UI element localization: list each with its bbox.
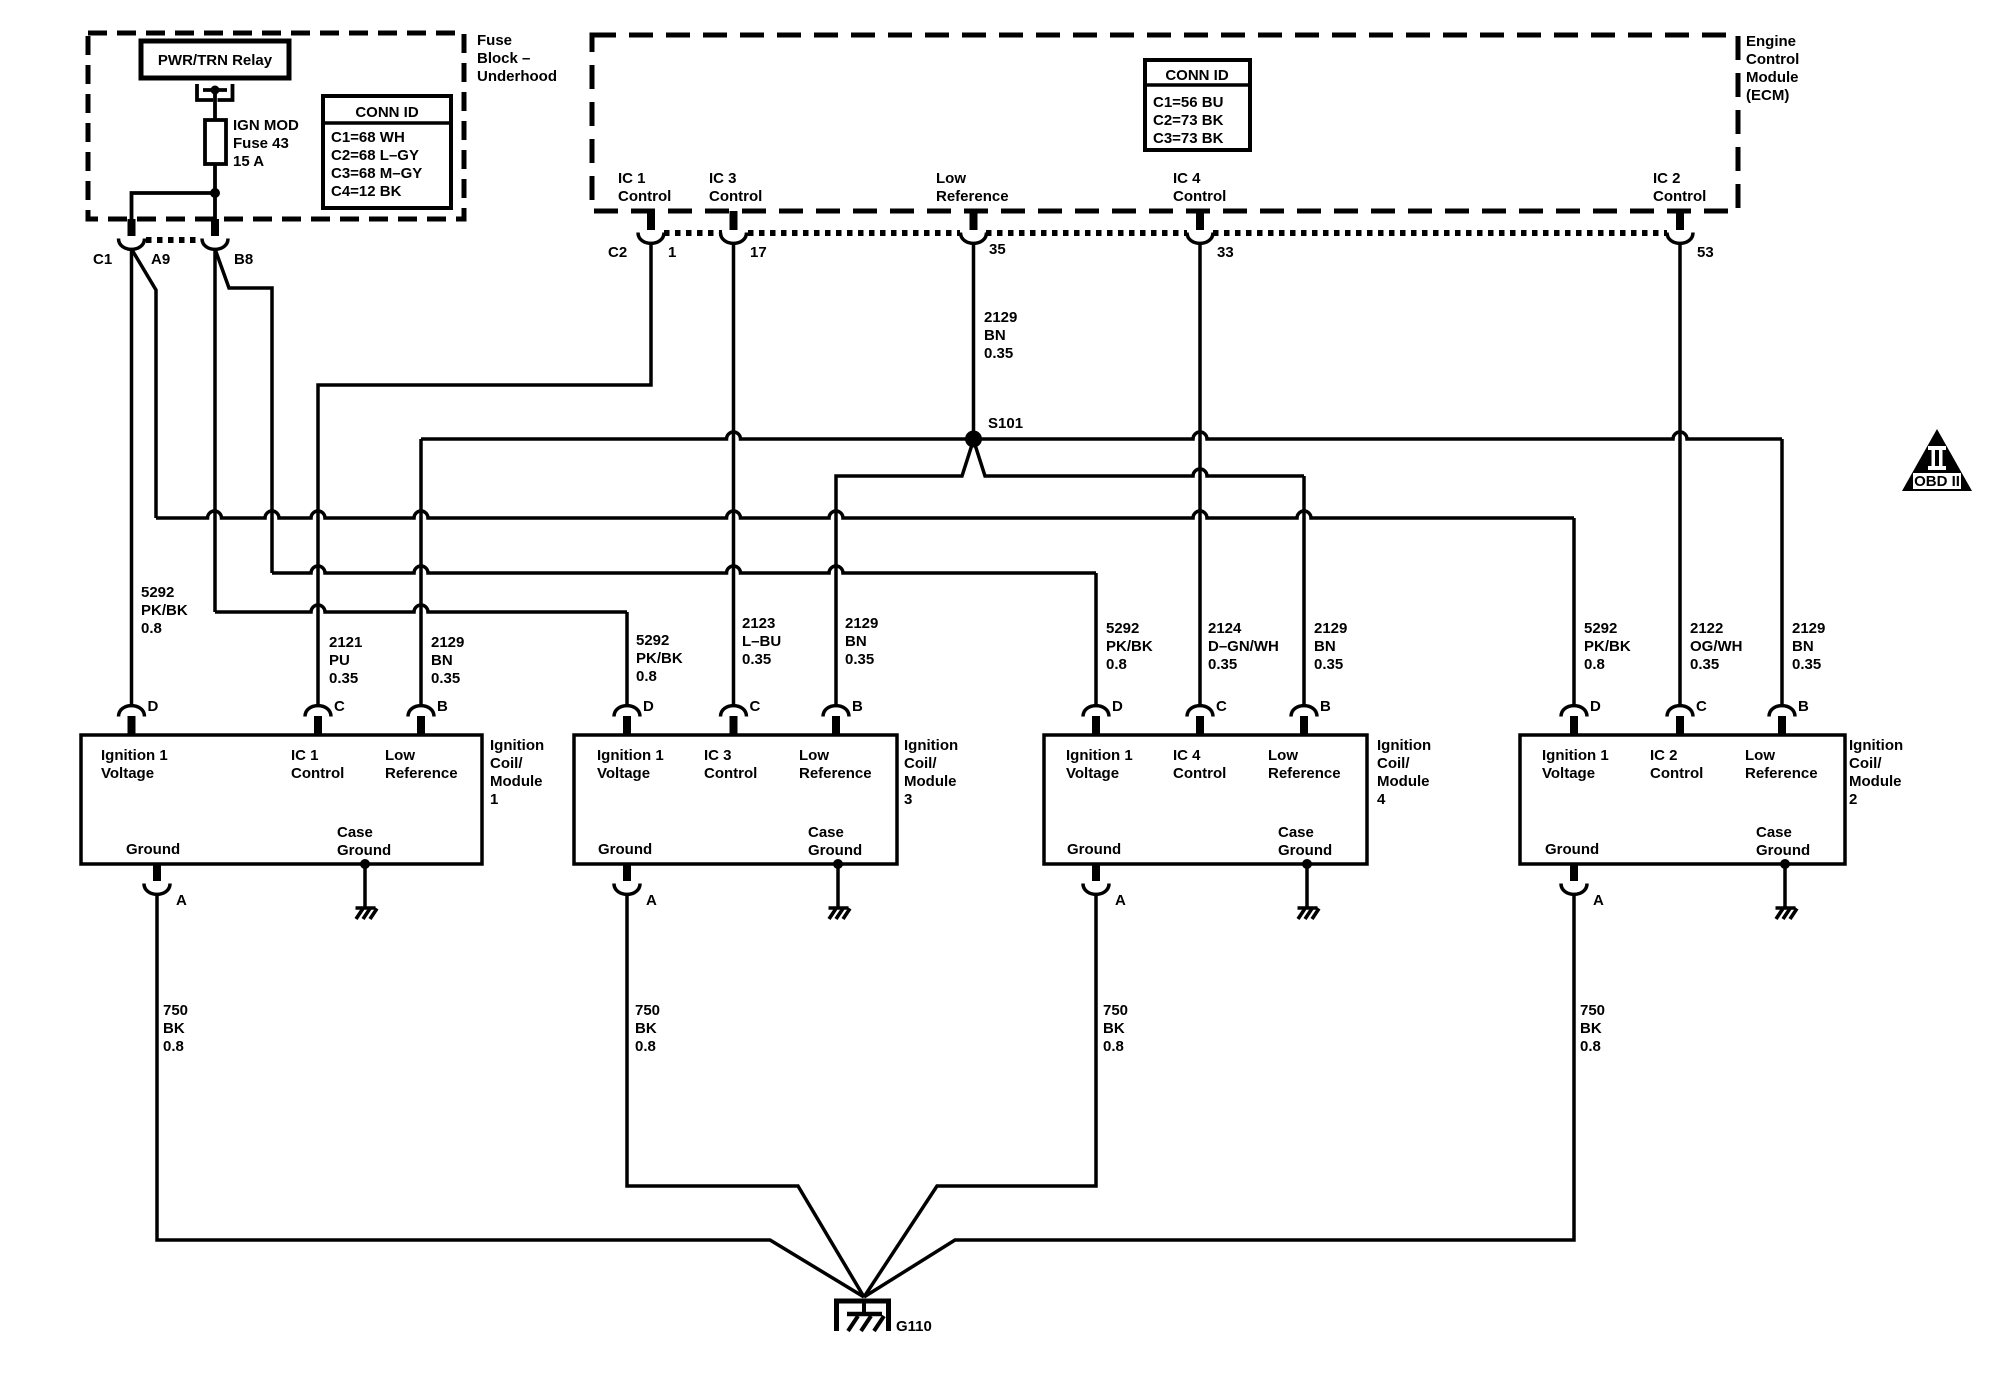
svg-text:D: D [148, 698, 159, 715]
label: Engine Control Module (ECM) [1746, 33, 1799, 104]
label 2129 BN 0.35 module4 B [1314, 620, 1347, 673]
svg-text:C2=73 BK: C2=73 BK [1153, 112, 1224, 129]
ignition coil/module 3 [574, 735, 897, 864]
wire 2129 down to module4 pin B [1302, 476, 1306, 706]
module 3 side label [904, 737, 958, 808]
svg-text:Reference: Reference [385, 765, 458, 782]
wire 5292 branch from B8 [215, 249, 272, 573]
svg-text:Fuse 43: Fuse 43 [233, 135, 289, 152]
svg-text:C: C [334, 698, 345, 715]
wire 2129 S101 V-branch left to module3 pin B [836, 440, 974, 706]
ECM pin 35 [961, 211, 987, 243]
svg-text:4: 4 [1377, 791, 1386, 808]
svg-text:A: A [1115, 892, 1126, 909]
svg-text:2124: 2124 [1208, 620, 1242, 637]
splice S101 [965, 431, 982, 448]
svg-text:2129: 2129 [984, 309, 1017, 326]
wire 5292 A9 to module1 pin D [130, 249, 134, 706]
label 2121 PU 0.35 module1 C [329, 634, 362, 687]
svg-text:A: A [176, 892, 187, 909]
svg-text:5292: 5292 [141, 584, 174, 601]
svg-text:Voltage: Voltage [101, 765, 154, 782]
wire 750 BK module1 A to G110 [157, 894, 864, 1297]
svg-text:0.35: 0.35 [984, 345, 1013, 362]
label 750 BK 0.8 (module3) [635, 1002, 660, 1055]
svg-text:0.35: 0.35 [431, 670, 460, 687]
module 3 case ground wire [836, 864, 840, 908]
svg-text:B: B [1320, 698, 1331, 715]
module 3 labels [597, 747, 872, 859]
svg-text:5292: 5292 [1106, 620, 1139, 637]
module 4 case ground wire [1305, 864, 1309, 908]
module 1 chassis ground symbol [356, 908, 378, 919]
module 3 pin C [721, 706, 747, 735]
module 4 pin B [1291, 706, 1317, 735]
svg-text:2129: 2129 [845, 615, 878, 632]
wire fuse to junction [213, 164, 217, 219]
svg-text:Case: Case [337, 824, 373, 841]
svg-text:0.35: 0.35 [742, 651, 771, 668]
svg-text:Control: Control [1173, 188, 1226, 205]
svg-text:Reference: Reference [1268, 765, 1341, 782]
connector table CONN ID (fuse block) [323, 96, 451, 208]
svg-text:2123: 2123 [742, 615, 775, 632]
svg-text:A9: A9 [151, 251, 170, 268]
svg-text:G110: G110 [896, 1318, 932, 1335]
svg-text:Reference: Reference [799, 765, 872, 782]
wire 2122 ECM pin53 to module2 pin C [1678, 243, 1682, 706]
wire 2129 down to module2 pin B [1780, 439, 1784, 706]
svg-text:0.8: 0.8 [1584, 656, 1605, 673]
svg-text:IC 1: IC 1 [291, 747, 319, 764]
svg-text:Module: Module [490, 773, 543, 790]
svg-text:Reference: Reference [936, 188, 1009, 205]
OBD II marker [1902, 429, 1972, 491]
label: Fuse Block - Underhood [477, 32, 557, 85]
svg-text:Ignition 1: Ignition 1 [597, 747, 664, 764]
wire rail B8 to module3 D [215, 605, 627, 612]
module 2 pin C [1667, 706, 1693, 735]
svg-text:D: D [1590, 698, 1601, 715]
svg-text:Ground: Ground [337, 842, 391, 859]
pin A9 of connector C1 [119, 219, 145, 249]
svg-text:Module: Module [1849, 773, 1902, 790]
wire 2129 down to module1 pin B [419, 439, 423, 706]
svg-text:Ignition: Ignition [904, 737, 958, 754]
svg-text:IC 4: IC 4 [1173, 747, 1201, 764]
pin B8 of connector C1 [202, 219, 228, 249]
module 1 pin D [119, 706, 145, 735]
module 4 labels [1066, 747, 1341, 859]
svg-text:C4=12 BK: C4=12 BK [331, 183, 402, 200]
fuse F43: IGN MOD Fuse 43 15A [205, 120, 226, 164]
svg-text:C3=73 BK: C3=73 BK [1153, 130, 1224, 147]
module 3 pin A [614, 864, 640, 894]
svg-text:Ground: Ground [1278, 842, 1332, 859]
label 2129 BN 0.35 module1 B [431, 634, 464, 687]
svg-text:C: C [750, 698, 761, 715]
connector table CONN ID (ECM) [1145, 60, 1250, 150]
svg-text:33: 33 [1217, 244, 1234, 261]
wire 5292 down to module3 pin D [625, 612, 629, 706]
module 1 pin A [144, 864, 170, 894]
module 1 labels [101, 747, 458, 859]
svg-text:IGN MOD: IGN MOD [233, 117, 299, 134]
module 4 case ground junction [1302, 859, 1312, 869]
svg-text:IC 3: IC 3 [709, 170, 737, 187]
svg-text:0.35: 0.35 [1792, 656, 1821, 673]
label 750 BK 0.8 (module4) [1103, 1002, 1128, 1055]
svg-text:Voltage: Voltage [1542, 765, 1595, 782]
svg-text:Coil/: Coil/ [1849, 755, 1882, 772]
wire 2129 ECM pin35 to splice S101 [972, 243, 976, 439]
svg-text:C2=68 L–GY: C2=68 L–GY [331, 147, 419, 164]
svg-text:2121: 2121 [329, 634, 362, 651]
svg-text:B: B [437, 698, 448, 715]
svg-text:Reference: Reference [1745, 765, 1818, 782]
connector C1 dotted in-line [146, 237, 201, 243]
fuse block - underhood (dashed enclosure) [88, 33, 464, 219]
svg-text:B8: B8 [234, 251, 253, 268]
svg-text:Voltage: Voltage [597, 765, 650, 782]
svg-text:Ground: Ground [808, 842, 862, 859]
svg-text:5292: 5292 [1584, 620, 1617, 637]
svg-text:BK: BK [163, 1020, 185, 1037]
svg-text:C3=68 M–GY: C3=68 M–GY [331, 165, 422, 182]
wire relay to fuse [213, 92, 217, 120]
svg-text:B: B [852, 698, 863, 715]
svg-text:C1=56 BU: C1=56 BU [1153, 94, 1223, 111]
label 750 BK 0.8 (module2) [1580, 1002, 1605, 1055]
wire 2123 ECM pin17 to module3 pin C [732, 243, 736, 706]
wire 5292 B8 to module3 pin D [213, 249, 217, 612]
module 2 pin A [1561, 864, 1587, 894]
svg-text:PU: PU [329, 652, 350, 669]
svg-text:Control: Control [1746, 51, 1799, 68]
svg-text:Module: Module [1377, 773, 1430, 790]
svg-text:35: 35 [989, 241, 1006, 258]
svg-text:2122: 2122 [1690, 620, 1723, 637]
svg-text:Control: Control [618, 188, 671, 205]
label 2124 D-GN/WH 0.35 module4 C [1208, 620, 1279, 673]
engine control module ECM (dashed enclosure) [592, 35, 1738, 211]
svg-text:PK/BK: PK/BK [141, 602, 188, 619]
svg-text:Low: Low [799, 747, 829, 764]
svg-text:B: B [1798, 698, 1809, 715]
junction in fuse block [210, 188, 220, 198]
svg-text:C: C [1696, 698, 1707, 715]
ECM pin 1 [638, 211, 664, 243]
label: IGN MOD Fuse 43 15 A [233, 117, 299, 170]
svg-text:Control: Control [1653, 188, 1706, 205]
module 1 case ground junction [360, 859, 370, 869]
label 750 BK 0.8 (module1) [163, 1002, 188, 1055]
wire 5292 down to module2 pin D [1572, 518, 1576, 706]
label 2129 BN 0.35 module2 B [1792, 620, 1825, 673]
svg-text:IC 3: IC 3 [704, 747, 732, 764]
svg-text:BN: BN [1314, 638, 1336, 655]
svg-text:Underhood: Underhood [477, 68, 557, 85]
svg-text:750: 750 [163, 1002, 188, 1019]
ground G110 [837, 1301, 889, 1331]
svg-text:Ignition 1: Ignition 1 [1542, 747, 1609, 764]
svg-text:Control: Control [1650, 765, 1703, 782]
wire 5292 branch from A9 [132, 249, 157, 518]
ignition coil/module 1 [81, 735, 482, 864]
svg-text:OBD II: OBD II [1914, 473, 1960, 490]
svg-text:Case: Case [808, 824, 844, 841]
svg-text:2: 2 [1849, 791, 1857, 808]
svg-text:Control: Control [291, 765, 344, 782]
svg-text:CONN ID: CONN ID [1165, 67, 1229, 84]
svg-text:Low: Low [385, 747, 415, 764]
svg-text:0.8: 0.8 [636, 668, 657, 685]
ECM pin 53 [1667, 211, 1693, 243]
module 2 side label [1849, 737, 1903, 808]
svg-text:PK/BK: PK/BK [636, 650, 683, 667]
svg-text:1: 1 [490, 791, 498, 808]
svg-text:750: 750 [1103, 1002, 1128, 1019]
svg-text:17: 17 [750, 244, 767, 261]
svg-text:C2: C2 [608, 244, 627, 261]
svg-text:Control: Control [709, 188, 762, 205]
wire rail 5292 to module4 pin D [272, 566, 1096, 573]
svg-text:0.35: 0.35 [1690, 656, 1719, 673]
wire 2124 ECM pin33 to module4 pin C [1198, 243, 1202, 706]
module 2 pin D [1561, 706, 1587, 735]
svg-text:BN: BN [845, 633, 867, 650]
svg-text:L–BU: L–BU [742, 633, 781, 650]
svg-text:Ignition 1: Ignition 1 [101, 747, 168, 764]
svg-text:750: 750 [635, 1002, 660, 1019]
svg-text:A: A [1593, 892, 1604, 909]
svg-text:0.8: 0.8 [1103, 1038, 1124, 1055]
label 5292 PK/BK 0.8 module3 D [636, 632, 683, 685]
relay contact symbol [197, 84, 233, 100]
module 4 pin C [1187, 706, 1213, 735]
svg-text:IC 2: IC 2 [1653, 170, 1681, 187]
svg-text:2129: 2129 [1314, 620, 1347, 637]
svg-text:PK/BK: PK/BK [1106, 638, 1153, 655]
svg-text:3: 3 [904, 791, 912, 808]
svg-text:CONN ID: CONN ID [355, 104, 419, 121]
svg-text:Ignition 1: Ignition 1 [1066, 747, 1133, 764]
svg-text:0.8: 0.8 [1580, 1038, 1601, 1055]
module 1 side label [490, 737, 544, 808]
module 1 pin B [408, 706, 434, 735]
svg-text:Low: Low [1268, 747, 1298, 764]
module 2 pin B [1769, 706, 1795, 735]
svg-text:2129: 2129 [431, 634, 464, 651]
ECM pin 17 [721, 211, 747, 243]
svg-text:Module: Module [904, 773, 957, 790]
svg-text:Block –: Block – [477, 50, 530, 67]
wire 2121 ECM pin1 to module1 pin C [318, 243, 651, 706]
svg-text:Case: Case [1756, 824, 1792, 841]
svg-text:D–GN/WH: D–GN/WH [1208, 638, 1279, 655]
svg-text:0.8: 0.8 [635, 1038, 656, 1055]
svg-text:2129: 2129 [1792, 620, 1825, 637]
svg-text:1: 1 [668, 244, 676, 261]
svg-text:PWR/TRN Relay: PWR/TRN Relay [158, 52, 273, 69]
module 1 case ground wire [363, 864, 367, 908]
ECM pin 33 [1187, 211, 1213, 243]
module 3 pin D [614, 706, 640, 735]
module 3 pin B [823, 706, 849, 735]
module 2 chassis ground symbol [1776, 908, 1798, 919]
svg-text:Ground: Ground [1545, 841, 1599, 858]
svg-text:BK: BK [1580, 1020, 1602, 1037]
svg-text:PK/BK: PK/BK [1584, 638, 1631, 655]
svg-text:Coil/: Coil/ [490, 755, 523, 772]
wire rail 5292 to module2 pin D [156, 511, 1574, 518]
svg-text:Ground: Ground [1067, 841, 1121, 858]
svg-text:5292: 5292 [636, 632, 669, 649]
svg-text:Coil/: Coil/ [1377, 755, 1410, 772]
svg-text:Control: Control [704, 765, 757, 782]
module 3 chassis ground symbol [829, 908, 851, 919]
svg-text:BN: BN [984, 327, 1006, 344]
module 2 case ground junction [1780, 859, 1790, 869]
svg-text:Ignition: Ignition [1377, 737, 1431, 754]
relay K: PWR/TRN Relay name box [141, 41, 289, 78]
label 2129 BN 0.35 module3 B [845, 615, 878, 668]
module 4 chassis ground symbol [1298, 908, 1320, 919]
svg-text:0.8: 0.8 [1106, 656, 1127, 673]
wire 5292 down to module4 pin D [1094, 573, 1098, 706]
wire 2129 rail through S101 [421, 432, 1782, 439]
svg-text:S101: S101 [988, 415, 1023, 432]
module 2 case ground wire [1783, 864, 1787, 908]
svg-text:Ground: Ground [1756, 842, 1810, 859]
wire 750 BK module3 A to G110 [627, 894, 864, 1297]
svg-text:C1=68 WH: C1=68 WH [331, 129, 405, 146]
svg-text:53: 53 [1697, 244, 1714, 261]
ignition coil/module 2 [1520, 735, 1845, 864]
svg-text:Voltage: Voltage [1066, 765, 1119, 782]
wire junction branch to A9 [132, 193, 216, 219]
svg-text:IC 1: IC 1 [618, 170, 646, 187]
label 5292 PK/BK 0.8 module1 D [141, 584, 188, 637]
svg-text:Engine: Engine [1746, 33, 1796, 50]
label 2123 L-BU 0.35 module3 C [742, 615, 781, 668]
svg-text:Ignition: Ignition [1849, 737, 1903, 754]
module 4 pin A [1083, 864, 1109, 894]
svg-text:BN: BN [431, 652, 453, 669]
svg-text:Fuse: Fuse [477, 32, 512, 49]
svg-text:Ground: Ground [126, 841, 180, 858]
label 2129 BN 0.35 at pin 35 [984, 309, 1017, 362]
svg-text:IC 4: IC 4 [1173, 170, 1201, 187]
svg-text:C1: C1 [93, 251, 112, 268]
label 5292 PK/BK 0.8 module4 D [1106, 620, 1153, 673]
svg-text:Case: Case [1278, 824, 1314, 841]
svg-text:BN: BN [1792, 638, 1814, 655]
svg-text:A: A [646, 892, 657, 909]
svg-text:0.35: 0.35 [845, 651, 874, 668]
svg-text:0.35: 0.35 [1314, 656, 1343, 673]
svg-text:Ignition: Ignition [490, 737, 544, 754]
svg-text:BK: BK [635, 1020, 657, 1037]
connector C2 dotted in-line (ECM) [664, 230, 722, 236]
svg-text:(ECM): (ECM) [1746, 87, 1789, 104]
svg-text:15 A: 15 A [233, 153, 264, 170]
ignition coil/module 4 [1044, 735, 1367, 864]
wire 2129 S101 V-branch right to module4 pin B [974, 440, 1305, 476]
svg-text:BK: BK [1103, 1020, 1125, 1037]
svg-text:0.8: 0.8 [163, 1038, 184, 1055]
module 3 case ground junction [833, 859, 843, 869]
svg-text:Ground: Ground [598, 841, 652, 858]
module 2 labels [1542, 747, 1818, 859]
svg-text:0.35: 0.35 [1208, 656, 1237, 673]
svg-text:750: 750 [1580, 1002, 1605, 1019]
svg-text:Control: Control [1173, 765, 1226, 782]
svg-text:Module: Module [1746, 69, 1799, 86]
module 4 pin D [1083, 706, 1109, 735]
wire 750 BK module2 A to G110 [864, 894, 1574, 1297]
module 4 side label [1377, 737, 1431, 808]
svg-text:0.8: 0.8 [141, 620, 162, 637]
svg-text:C: C [1216, 698, 1227, 715]
svg-text:0.35: 0.35 [329, 670, 358, 687]
svg-text:Coil/: Coil/ [904, 755, 937, 772]
svg-text:OG/WH: OG/WH [1690, 638, 1743, 655]
svg-text:D: D [1112, 698, 1123, 715]
module 1 pin C [305, 706, 331, 735]
ECM pin function labels [618, 170, 671, 205]
wire 750 BK module4 A to G110 [864, 894, 1096, 1297]
svg-text:Low: Low [1745, 747, 1775, 764]
label 5292 PK/BK 0.8 module2 D [1584, 620, 1631, 673]
svg-text:D: D [643, 698, 654, 715]
svg-text:Low: Low [936, 170, 966, 187]
label 2122 OG/WH 0.35 module2 C [1690, 620, 1743, 673]
svg-text:IC 2: IC 2 [1650, 747, 1678, 764]
